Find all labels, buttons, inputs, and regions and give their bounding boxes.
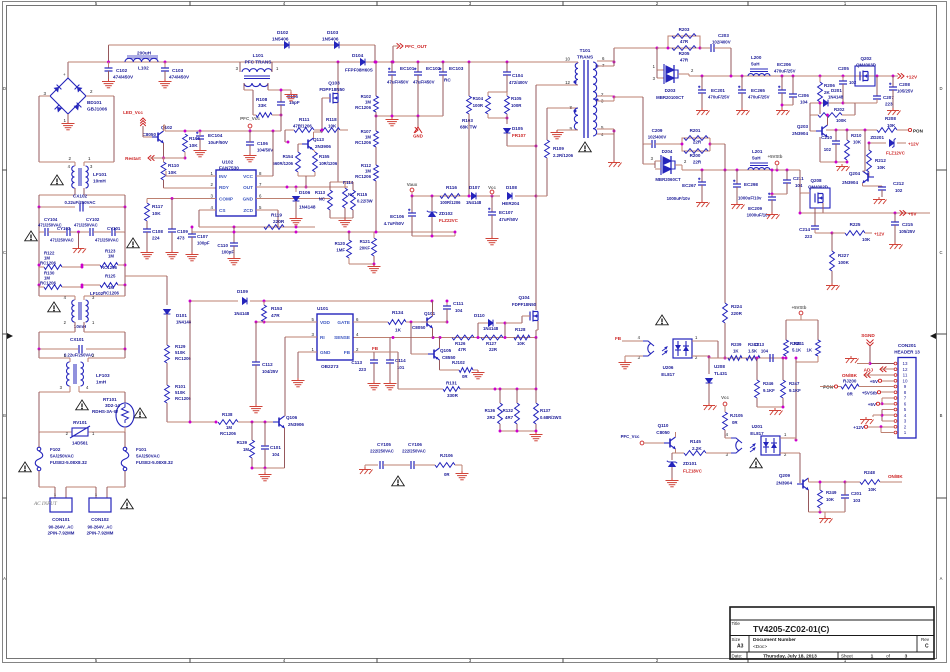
capacitor C214 [811,226,819,229]
wire [473,369,478,371]
junction [263,321,266,324]
svg-text:C: C [939,250,942,255]
junction [38,206,41,209]
junction [881,402,884,405]
svg-text:C214: C214 [799,227,810,232]
svg-text:2: 2 [64,320,67,325]
svg-text:1000uF/10v: 1000uF/10v [738,196,762,201]
svg-text:L200: L200 [751,55,762,60]
wire [882,409,894,411]
junction [468,61,471,64]
svg-text:R127: R127 [486,341,497,346]
wire secondary hi [613,48,615,66]
resistor R206 [818,82,823,102]
wire [808,478,810,482]
svg-text:F102: F102 [50,447,61,452]
wire [38,432,40,447]
wire [412,235,455,237]
wire [69,386,71,392]
wire [166,276,168,305]
wire [701,185,703,200]
wire [330,181,353,183]
net arrow [900,210,906,216]
wire [842,76,844,81]
wire [264,422,266,446]
wire RDY [163,180,165,188]
junction [844,481,847,484]
ground [102,79,115,88]
wire [297,172,299,176]
svg-text:U101: U101 [317,306,329,311]
ground [736,108,750,115]
svg-text:470uF/25V: 470uF/25V [708,95,730,100]
wire [281,89,291,91]
junction [287,141,290,144]
svg-text:2N3904: 2N3904 [842,180,858,185]
junction [516,430,519,433]
wire [284,445,286,468]
ground [368,381,381,390]
junction [795,357,798,360]
svg-text:22R: 22R [489,347,498,352]
resistor R137 [534,403,539,424]
transistor Q203 [816,125,828,137]
junction [392,61,395,64]
wire [655,143,682,145]
wire VCC [256,175,273,177]
wire [692,355,709,357]
warning symbol [25,231,38,241]
junction [431,195,434,198]
wire [671,467,673,478]
inductor LF101.2 [86,166,89,188]
junction [846,161,849,164]
svg-text:MBR2060CT: MBR2060CT [655,177,681,182]
transistor Q101 [421,316,433,328]
wire [882,397,894,399]
svg-text:Q103: Q103 [328,81,340,86]
capacitor C212 [878,187,886,190]
LF101 core [78,168,80,186]
wire [499,424,501,431]
svg-text:FAN7530: FAN7530 [219,166,239,171]
svg-text:103: 103 [853,498,861,503]
svg-text:102: 102 [824,147,832,152]
wire [251,458,253,468]
wire [446,301,448,306]
wire [280,105,282,131]
svg-text:5A/250VAC: 5A/250VAC [50,454,75,459]
junction [781,104,784,107]
resistor R153 [262,305,267,322]
junction [124,264,127,267]
wire [78,232,80,246]
wire [643,143,652,145]
wire [329,210,331,218]
pin circle [894,391,897,394]
svg-text:R155: R155 [319,154,330,159]
svg-text:10R/1206: 10R/1206 [319,161,338,166]
wire COMP [147,198,216,200]
ground [486,236,499,245]
wire [613,129,615,160]
diode BD101-a [53,85,61,93]
svg-text:C110: C110 [217,243,228,248]
svg-text:222/250VAC: 222/250VAC [402,449,426,454]
junction [499,430,502,433]
capacitor CY104 [45,228,48,236]
wire [499,389,501,403]
wire [83,188,85,195]
wire [780,452,800,454]
wire [233,227,235,243]
resistor R248 [860,480,880,485]
svg-text:T101: T101 [580,48,591,53]
svg-text:6: 6 [602,56,605,61]
svg-text:C201: C201 [851,491,862,496]
zone tick [562,659,564,663]
junction [417,61,420,64]
svg-text:9: 9 [904,384,907,389]
wire [83,322,85,332]
svg-text:474/450V: 474/450V [169,75,190,80]
wire [894,213,896,222]
wire [267,83,269,90]
wire FB [353,351,374,353]
svg-text:ZD201: ZD201 [870,135,884,140]
svg-text:510K: 510K [175,390,186,395]
svg-text:INV: INV [219,174,228,179]
junction [124,284,127,287]
svg-text:2N3904: 2N3904 [792,131,808,136]
svg-text:100pF: 100pF [197,241,210,246]
fold mark [7,333,13,339]
wire [38,349,40,358]
resistor R208 [877,128,897,133]
zone tick [562,2,564,6]
wire pin2 [597,95,614,97]
wire [654,161,656,168]
svg-text:CY103: CY103 [57,226,71,231]
junction [786,169,789,172]
wire [468,114,470,196]
svg-text:FR107: FR107 [512,133,526,138]
wire [844,482,846,495]
wire [375,112,377,131]
junction [535,195,538,198]
svg-text:102/400V: 102/400V [648,135,667,140]
svg-text:1: 1 [784,432,787,437]
label underline [127,55,158,57]
junction [255,321,258,324]
junction [38,348,41,351]
capacitor CY106 [411,461,414,469]
LF103 core [73,364,75,384]
junction [164,61,167,64]
svg-text:C111: C111 [453,301,464,306]
junction [107,61,110,64]
wire [506,62,508,72]
junction [124,206,127,209]
wire [701,93,703,108]
wire [897,129,908,131]
wire [251,422,253,440]
svg-text:R126: R126 [455,341,466,346]
svg-text:330R: 330R [447,393,459,398]
resistor R113 [328,190,333,210]
resistor R110 [161,162,166,180]
inductor LF101.1 [72,166,75,188]
capacitor C101 [261,446,269,449]
svg-text:2: 2 [904,424,907,429]
junction [432,336,435,339]
L201 lines [750,162,768,164]
svg-text:RC1206: RC1206 [355,140,372,145]
svg-text:3: 3 [905,654,908,660]
wire [284,428,286,445]
diode D107 [472,193,477,200]
svg-text:Q202: Q202 [860,56,872,61]
junction [392,336,395,339]
svg-text:10K: 10K [826,497,835,502]
wire [832,232,845,234]
capacitor CX102 [80,203,83,212]
wire [865,374,894,376]
pin circle [894,414,897,417]
svg-text:C8050: C8050 [412,325,426,330]
junction [295,231,298,234]
Q202 box [855,66,875,86]
ground [731,202,745,209]
wire FB [622,340,643,342]
svg-text:PFC_Vcc: PFC_Vcc [240,116,260,121]
wire [535,424,537,431]
junction [431,235,434,238]
wire [644,442,664,444]
svg-text:FB: FB [372,346,379,351]
resistor RJ105 [723,412,728,430]
junction [305,186,308,189]
svg-text:104: 104 [761,349,769,354]
wire [284,415,287,417]
junction [613,61,616,64]
wire [882,380,894,382]
junction [431,300,434,303]
wire [776,165,778,170]
svg-text:C109: C109 [177,229,188,234]
wire [256,321,264,323]
wire pin12 [536,84,578,86]
net GND arrow [414,127,422,133]
junction [842,75,845,78]
wire [39,206,75,208]
wire [124,427,126,432]
junction [835,161,838,164]
wire [835,130,837,141]
junction [373,263,376,266]
wire [843,102,855,104]
wire [810,130,816,132]
junction [741,75,744,78]
svg-text:TL431: TL431 [714,371,728,376]
wire [708,355,710,374]
resistor R247 [781,380,786,398]
svg-text:9.1KF: 9.1KF [789,388,801,393]
junction [337,61,340,64]
ground [62,121,75,130]
wire [701,170,703,182]
wire +12V rail [689,75,898,77]
svg-text:FDPF18N50: FDPF18N50 [512,302,537,307]
diode D201 [824,100,829,107]
svg-text:1N4148: 1N4148 [466,200,482,205]
resistor R129 [165,345,170,363]
transistor Q204 [863,171,875,183]
capacitor C113 [370,360,378,363]
wire [285,129,294,131]
wire [496,322,505,324]
svg-text:R119: R119 [271,213,282,218]
wire [239,62,241,72]
wire [820,386,834,388]
resistor R120 [347,240,352,258]
resistor R109 [545,140,550,158]
junction [411,195,414,198]
svg-text:10: 10 [565,57,570,62]
inductor LF103.2 [81,362,84,386]
capacitor EC106 [408,209,416,216]
wire [249,145,251,153]
junction [799,212,802,215]
wire feedback column [724,170,726,303]
svg-text:3: 3 [312,332,315,337]
pin circle [894,379,897,382]
junction [191,226,194,229]
wire pin6 [597,60,614,62]
wire [862,183,864,186]
svg-text:R136: R136 [485,408,496,413]
svg-text:R107: R107 [361,129,372,134]
wire [284,130,286,142]
svg-text:CY104: CY104 [44,217,58,222]
wire [455,464,462,466]
svg-text:R134: R134 [392,310,404,315]
wire [340,129,348,131]
svg-text:QM4002D: QM4002D [808,185,828,190]
svg-text:5: 5 [904,407,907,412]
junction [499,388,502,391]
wire [516,424,518,431]
svg-text:LF103: LF103 [96,373,110,378]
svg-text:2: 2 [356,347,359,352]
wire [314,129,320,131]
svg-text:L102: L102 [138,66,149,71]
svg-text:U102: U102 [222,160,234,165]
resistor R131 [443,387,460,392]
junction [846,129,849,132]
wire [406,321,421,323]
svg-text:C215: C215 [902,222,913,227]
wire [827,115,829,125]
resistor R243 [746,356,760,361]
svg-text:560R/1206: 560R/1206 [273,161,294,166]
svg-text:1M: 1M [365,100,371,105]
wire [756,398,758,407]
wire [255,322,257,362]
wire sense row [460,388,536,390]
warning symbol [76,400,89,410]
svg-text:ADJ: ADJ [864,367,874,372]
junction [264,467,267,470]
svg-text:R200: R200 [690,153,701,158]
wire [352,182,354,190]
resistor R104 [486,96,491,114]
svg-text:7: 7 [259,182,262,187]
svg-text:1: 1 [88,156,91,161]
svg-text:10K: 10K [189,143,198,148]
svg-text:CX101: CX101 [70,337,84,342]
wire [164,62,166,68]
junction [184,157,187,160]
warning symbol [19,462,32,472]
wire [771,194,773,197]
svg-text:C112: C112 [262,362,273,367]
wire [656,70,658,78]
svg-text:1: 1 [871,654,874,660]
svg-text:2.2R/1206: 2.2R/1206 [553,153,574,158]
wire [398,388,443,390]
svg-text:47uF/450V: 47uF/450V [413,80,435,85]
capacitor C106 [246,142,254,145]
svg-text:CON101: CON101 [52,517,70,522]
svg-text:1N4148: 1N4148 [234,311,250,316]
resistor R225 [845,231,865,236]
junction [826,114,829,117]
resistor R118 [320,128,340,133]
svg-text:2PIN-7.92MM: 2PIN-7.92MM [87,531,114,536]
svg-text:10K: 10K [868,487,877,492]
svg-text:RJ200: RJ200 [843,379,857,384]
svg-text:D109: D109 [237,289,248,294]
wire [124,232,126,285]
svg-text:5: 5 [312,317,315,322]
IC U101 OB2273 [317,314,353,360]
wire [708,383,710,403]
svg-text:473: 473 [177,236,185,241]
svg-text:D107: D107 [469,185,480,190]
wire [82,284,100,286]
transistor Q208 [815,193,823,204]
resistor R139 [250,440,255,458]
svg-text:3: 3 [651,156,654,161]
wire ZCD [256,209,278,211]
wire [786,170,788,180]
wire [166,314,168,345]
wire [432,328,434,338]
resistor R132 [515,403,520,424]
capacitor C104 [503,72,511,75]
svg-text:R117: R117 [152,204,163,209]
svg-text:47uF/50V: 47uF/50V [499,217,518,222]
svg-text:C209: C209 [652,128,663,133]
svg-text:D110: D110 [474,313,485,318]
junction [819,75,822,78]
svg-text:L101: L101 [253,53,264,58]
svg-text:1N4148: 1N4148 [299,205,316,210]
svg-text:47R: 47R [680,39,689,44]
wire [108,71,110,79]
junction [263,300,266,303]
